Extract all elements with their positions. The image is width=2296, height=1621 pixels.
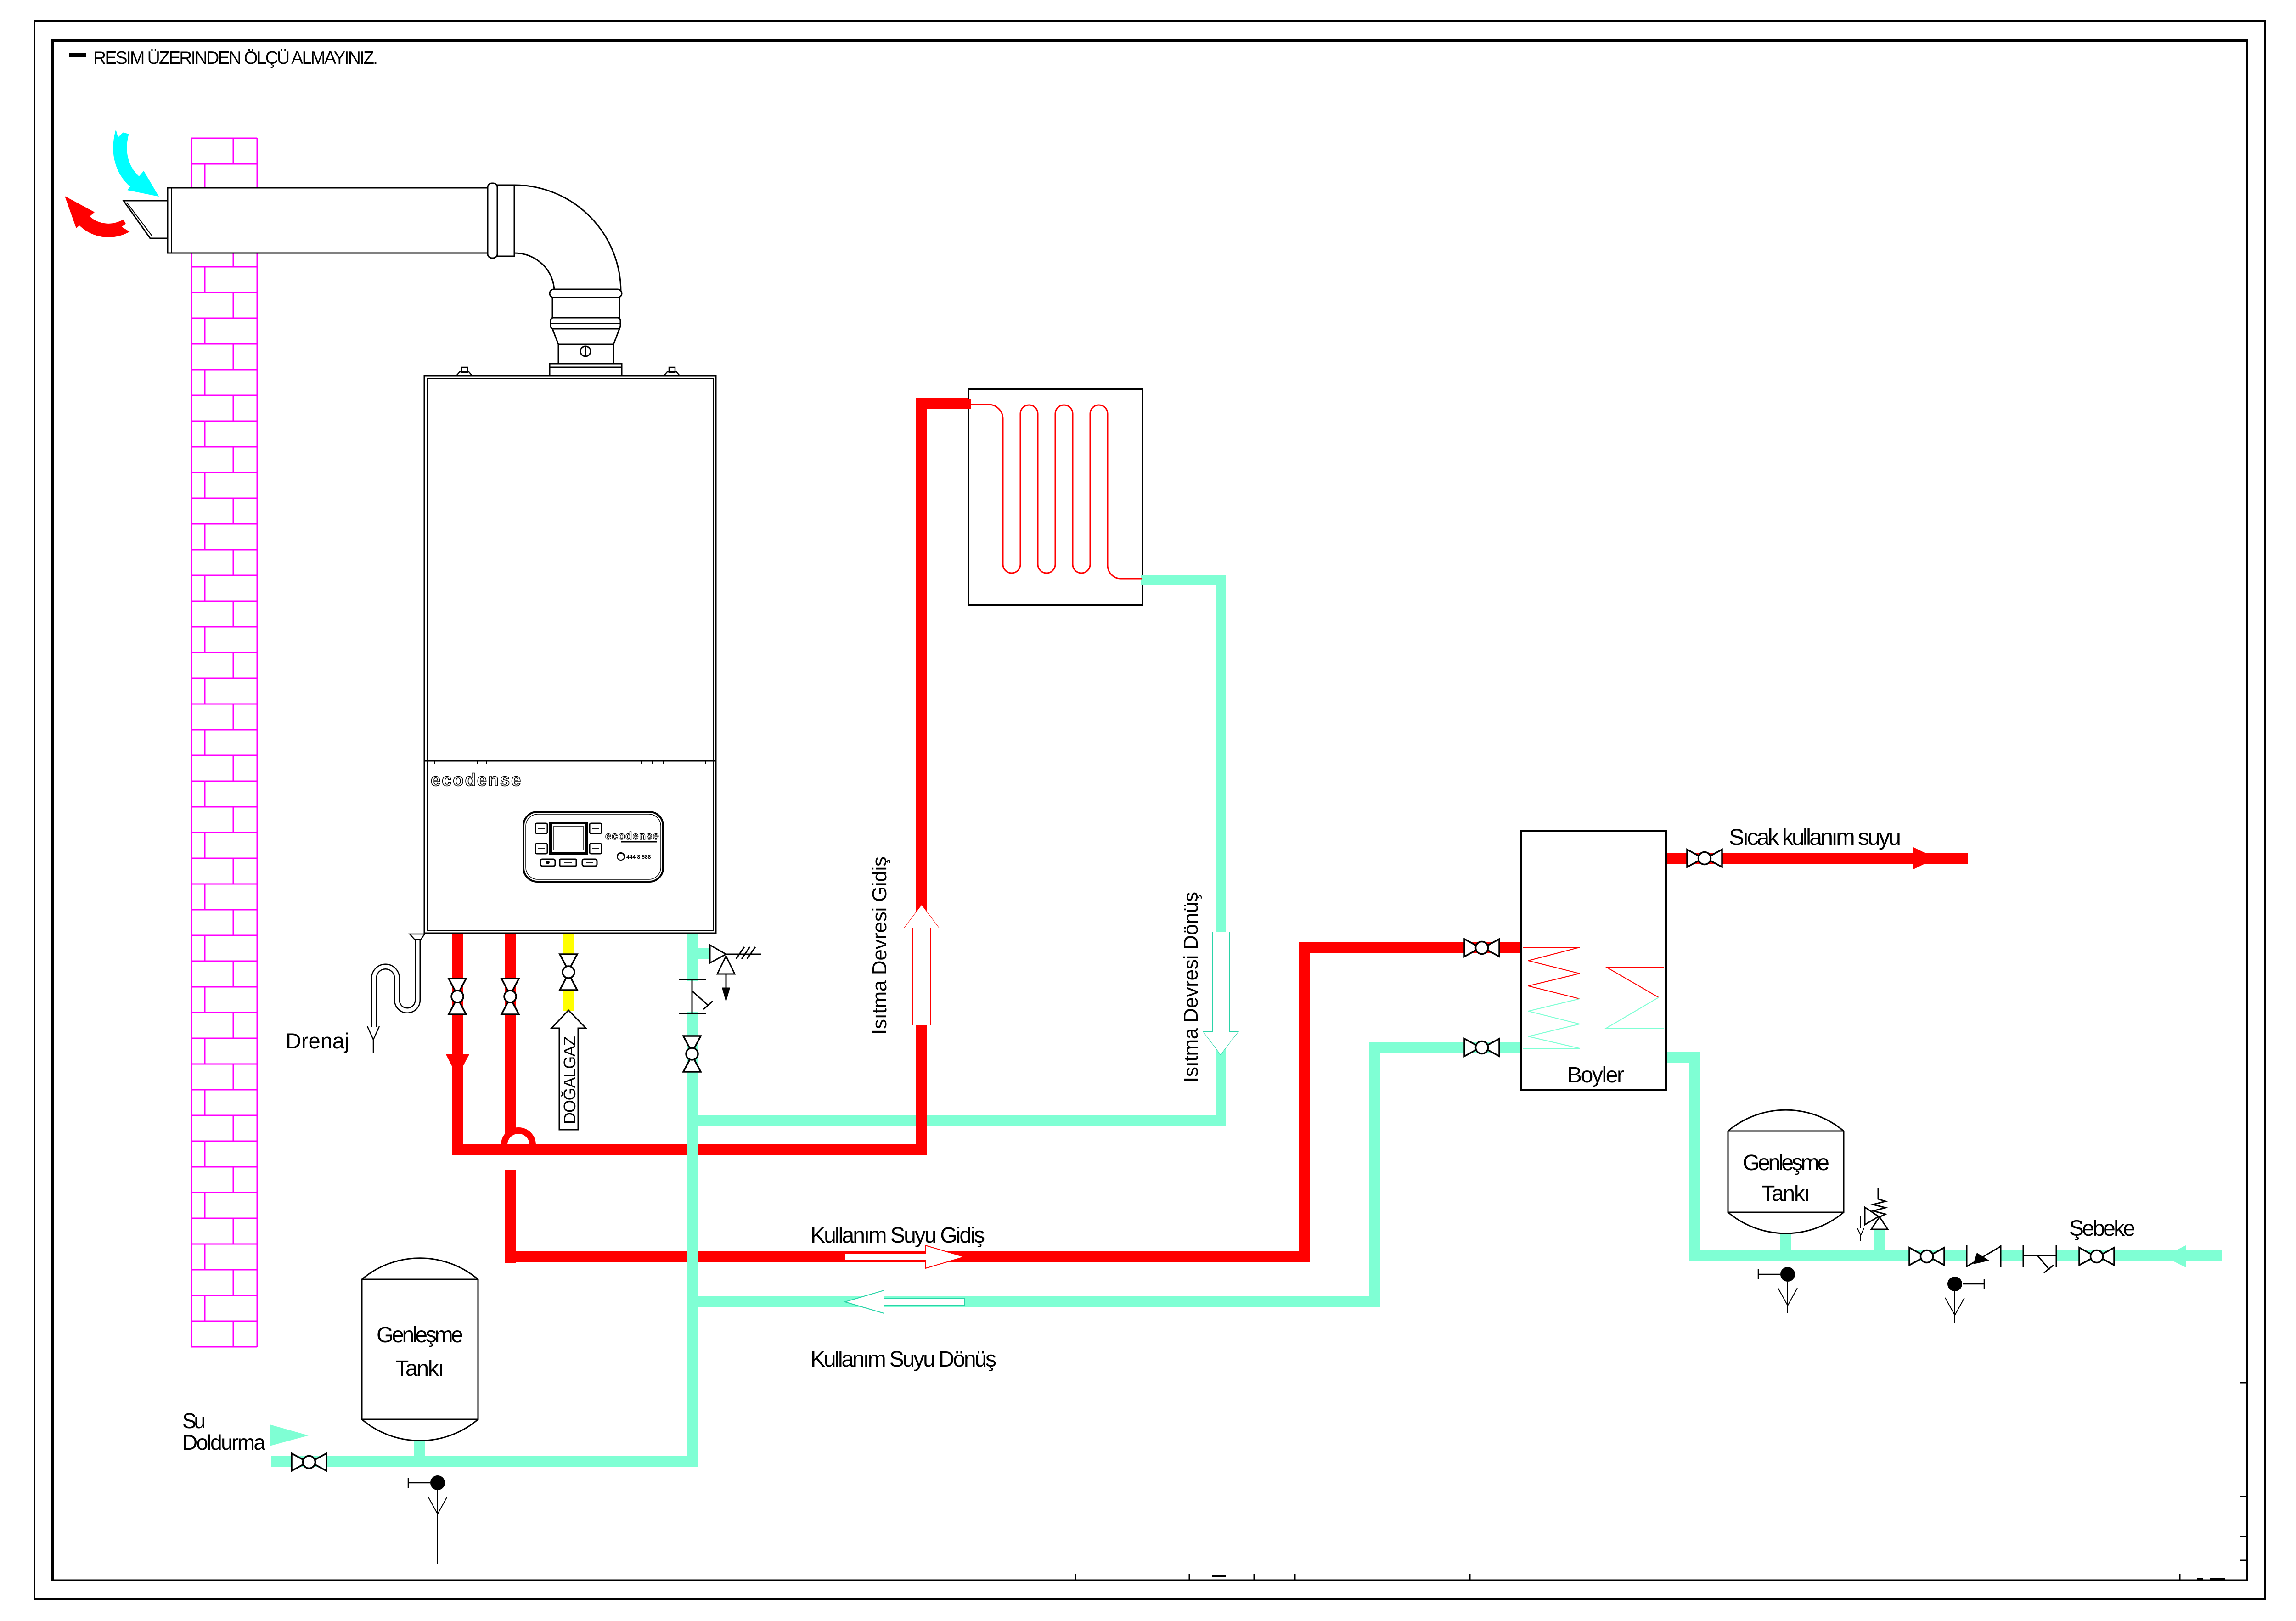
wire: red pipe A vertical from boiler (452, 933, 463, 1155)
white flow arrow down in cyan riser (1204, 932, 1238, 1054)
wire: yellow gas pipe lower (563, 989, 574, 1011)
valve V7 hot water outlet (1687, 850, 1722, 867)
valve V9 sebeke line right (2079, 1248, 2114, 1265)
svg-text:DOĞALGAZ: DOĞALGAZ (560, 1036, 579, 1124)
su doldurma arrow (solid cyan triangle) (270, 1424, 309, 1446)
flue adapter screw (580, 346, 591, 356)
svg-text:ecodense: ecodense (431, 771, 522, 790)
svg-text:Kullanım Suyu Gidiş: Kullanım Suyu Gidiş (810, 1223, 985, 1248)
wire: cyan vertical up to Boyler cyan inlet (1369, 1042, 1380, 1307)
bottom button 1 (540, 859, 555, 866)
wire: cyan Sebeke horizontal line (1689, 1250, 2222, 1261)
tiny button glyphs (538, 828, 599, 864)
wire: red lower horizontal Kullanim Suyu Gidis (505, 1251, 1310, 1262)
button bottom-right (590, 844, 602, 854)
red arrow tail notch (122, 220, 132, 233)
frame tick marks right edge (2240, 1496, 2248, 1497)
flue elbow 90deg (514, 185, 621, 292)
radiator serpentine coil (968, 405, 1142, 579)
svg-text:ecodense: ecodense (605, 830, 659, 842)
inner frame (51, 39, 2248, 42)
boyler left coil red part (1523, 947, 1580, 999)
svg-text:Sıcak kullanım suyu: Sıcak kullanım suyu (1729, 824, 1901, 850)
control panel (523, 812, 663, 882)
cyan arrow tail notch (114, 124, 129, 137)
wire: cyan heating return riser from radiator (Isitma Devresi Donus) (1142, 575, 1226, 585)
wire: cyan stub from left expansion tank down (414, 1441, 425, 1456)
svg-text:Su: Su (182, 1409, 206, 1433)
note dash (69, 53, 86, 57)
white flow arrow up in red riser (905, 905, 939, 1025)
boiler panel separator tick marks (435, 761, 705, 764)
boiler top bolt right (664, 367, 680, 376)
drain D1 below left tank pipe (408, 1475, 447, 1521)
right relief valve group at expansion tank (1857, 1188, 1888, 1241)
bottom button 3 (582, 859, 597, 866)
check valve CV1 on sebeke line (1967, 1245, 2001, 1267)
flow arrow right on hot water outlet (1913, 847, 1936, 869)
wire: cyan upper horizontal Isitma Devresi Donus (692, 1115, 1226, 1126)
valve V10 su doldurma (292, 1453, 326, 1471)
wire: red hot water outlet from Boyler (Sicak kullanim suyu) (1666, 853, 1968, 864)
flue adapter collar ring (550, 289, 622, 298)
svg-text:Genleşme: Genleşme (1743, 1151, 1829, 1175)
valve V5 boyler red inlet (1464, 939, 1499, 957)
flue adapter taper (552, 329, 619, 344)
brick wall (magenta) (191, 138, 257, 1347)
valve V2 on red pipe B (501, 979, 519, 1014)
drenaj arrow open head (367, 1026, 379, 1040)
svg-text:Kullanım Suyu Dönüş: Kullanım Suyu Dönüş (810, 1347, 996, 1372)
valve V1 on red pipe A (449, 979, 466, 1014)
wire: cyan lower horizontal Kullanim Suyu Donus (692, 1296, 1380, 1307)
drain D3 on sebeke line (1945, 1277, 1984, 1323)
boiler cabinet outer (424, 376, 716, 933)
display (551, 823, 586, 853)
valve V3 on gas pipe (560, 954, 577, 990)
boiler safety relief valve (right of cyan stub) (710, 945, 761, 1000)
bridge: white gap of pipe B under the hop (504, 1155, 517, 1170)
svg-text:Tankı: Tankı (1761, 1182, 1810, 1206)
svg-text:Isıtma Devresi Dönüş: Isıtma Devresi Dönüş (1180, 892, 1202, 1082)
boyler box (1521, 831, 1666, 1090)
flue air-intake arrow (cyan curved) (120, 132, 135, 182)
wire: red heating supply riser to radiator (Isitma Devresi Gidis) (916, 398, 927, 1155)
wire: red vertical up to Boyler inlet (1299, 942, 1310, 1262)
left expansion tank body (362, 1258, 478, 1441)
cyan gap for strainer symbol on vertical (686, 981, 698, 1012)
svg-text:444 8 588: 444 8 588 (626, 854, 651, 860)
boiler top bolt left (456, 367, 472, 376)
svg-text:Isıtma Devresi Gidiş: Isıtma Devresi Gidiş (868, 856, 891, 1035)
check valve CV2 (with lever) on sebeke line (2023, 1245, 2056, 1273)
svg-text:Doldurma: Doldurma (182, 1430, 265, 1454)
radiator outlet cyan overlap on border (1141, 575, 1145, 585)
valve V8 sebeke line left (1909, 1248, 1944, 1265)
frame tick marks bottom edge (1075, 1574, 1076, 1580)
radiator box (968, 389, 1142, 605)
sebeke inlet arrow pointing left (2164, 1245, 2186, 1267)
right expansion tank body (1728, 1110, 1844, 1233)
svg-text:Boyler: Boyler (1567, 1063, 1624, 1087)
flow arrow down on red pipe A (446, 1054, 469, 1077)
flue adapter body (552, 298, 619, 318)
flue horizontal concentric pipe (168, 188, 514, 253)
flue pipe end cap double line (171, 188, 172, 253)
button top-left (535, 823, 547, 833)
drain D2 below right tank pipe (1758, 1267, 1797, 1313)
boyler right coil cyan part (1606, 997, 1664, 1028)
wire: cyan stub up to right expansion tank (1780, 1234, 1791, 1250)
flue coupling ring at elbow (488, 183, 497, 258)
wire: yellow gas pipe upper (563, 933, 574, 955)
boyler left coil cyan part (1523, 999, 1580, 1048)
flue inner tube bevel tip (124, 201, 168, 238)
wire: red pipe B vertical from boiler (kullanim suyu gidis down-leg) (505, 933, 516, 1263)
drenaj S-trap tube outer (374, 940, 418, 1027)
white flow arrow left in kullanim donus (845, 1290, 964, 1313)
wire: cyan vertical main from boiler down to bottom pipe (687, 933, 698, 1467)
svg-text:Tankı: Tankı (395, 1356, 444, 1381)
wire: red stub into radiator top-left (916, 398, 968, 409)
wire: cyan stub up to right relief valve (1874, 1229, 1885, 1250)
wire: red horizontal into Boyler left (with valve) (1299, 942, 1521, 953)
strainer symbol on cyan vertical below boiler (679, 979, 713, 1013)
boyler right coil red part (1606, 967, 1664, 997)
white flow arrow right in kullanim gidis (845, 1245, 964, 1268)
call center icon and number (617, 853, 625, 860)
wire: cyan horizontal into Boyler left lower (with valve) (1369, 1042, 1521, 1053)
svg-text:RESIM ÜZERINDEN ÖLÇÜ ALMAYINIZ: RESIM ÜZERINDEN ÖLÇÜ ALMAYINIZ. (93, 48, 378, 68)
bottom button 2 (560, 859, 576, 866)
wire: cyan bottom-left horizontal (Su Doldurma line) (271, 1456, 698, 1467)
svg-text:Şebeke: Şebeke (2069, 1216, 2135, 1241)
valve V6 boyler cyan inlet (1464, 1039, 1499, 1056)
button bottom-left (535, 844, 547, 854)
tiny title marks bottom right (1212, 1575, 1226, 1577)
radiator inlet red overlap on border (966, 399, 971, 409)
wire: red upper horizontal from boiler port A to riser (452, 1144, 927, 1155)
button top-right (590, 823, 602, 833)
drenaj funnel (410, 934, 425, 940)
flue base plate on boiler top (550, 364, 622, 367)
wire: cyan stub to boiler safety valve (698, 948, 710, 959)
boiler cabinet inner line (427, 378, 713, 930)
boiler panel separator double line (424, 760, 716, 762)
svg-text:Drenaj: Drenaj (286, 1029, 349, 1053)
flue adapter middle ring (551, 318, 620, 329)
svg-text:Genleşme: Genleşme (377, 1323, 463, 1347)
DOGALGAZ arrow label (551, 1010, 586, 1130)
flue exhaust arrow (red curved) (83, 219, 127, 231)
wire: cyan outlet from Boyler bottom right (1666, 1052, 1700, 1063)
bridge arc: pipe A hops over pipe B (501, 1128, 535, 1145)
valve V4 on cyan vertical (683, 1036, 701, 1072)
flue adapter neck (558, 344, 613, 364)
cyan gaps for check valve symbols on sebeke line (1967, 1249, 2000, 1263)
